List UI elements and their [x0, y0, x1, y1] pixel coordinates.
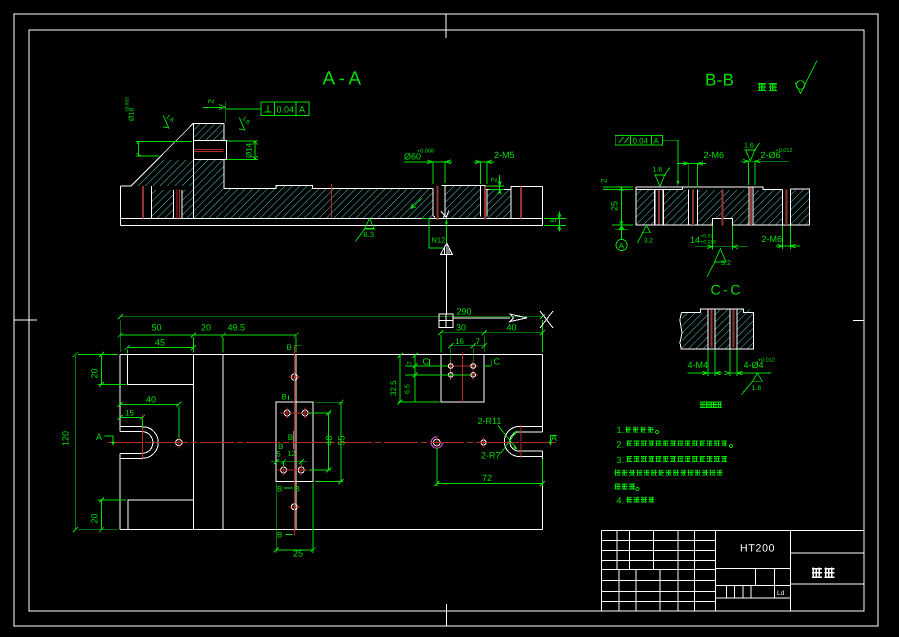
- svg-text:B: B: [277, 485, 282, 494]
- C-C hatch: [682, 313, 708, 349]
- roughness 1.6 at boss hole: [234, 118, 249, 133]
- svg-text:32.5: 32.5: [389, 380, 398, 396]
- surface check at hole exit: [441, 211, 449, 218]
- tapped hole magenta: [433, 439, 440, 446]
- svg-text:C: C: [494, 357, 501, 367]
- centering mark bottom: [446, 604, 448, 626]
- svg-text:A: A: [299, 105, 305, 115]
- right slot vertical red: [520, 425, 522, 458]
- hole slot-left: [176, 439, 182, 445]
- dim 2 lip: [490, 177, 499, 182]
- svg-text:2.: 2.: [617, 439, 625, 449]
- svg-text:120: 120: [61, 431, 71, 446]
- B-B hole2 red: [692, 189, 694, 225]
- hole on B-line bottom: [291, 504, 297, 510]
- svg-text:6.5: 6.5: [405, 384, 412, 394]
- right U-slot outer: [504, 426, 542, 456]
- left table verticals upper: [617, 530, 695, 569]
- C-C hole2 red: [732, 309, 734, 347]
- svg-text:B: B: [277, 531, 282, 540]
- M5 hole red: [484, 186, 486, 219]
- A-A hatch under-slant: [132, 160, 193, 186]
- svg-text:B: B: [278, 442, 283, 451]
- B-B hole1 red: [658, 190, 660, 225]
- datum A symbol: [619, 225, 625, 230]
- B-B hatch: [636, 190, 654, 225]
- svg-text:2-M6: 2-M6: [762, 234, 783, 244]
- bottom-left pocket: [128, 500, 193, 530]
- ucs X arrowhead: [510, 314, 527, 321]
- svg-text:20: 20: [90, 513, 100, 523]
- dim 2 at boss right: [207, 99, 216, 104]
- sub-rect2 red centerline: [462, 353, 464, 402]
- top edge right of boss with step: [224, 186, 433, 189]
- middle cells: [716, 569, 791, 598]
- dim 290: [120, 317, 542, 353]
- B-B hole4 walls: [782, 189, 790, 225]
- C-C hole1 walls: [708, 309, 715, 349]
- plan right edge segments: [541, 355, 543, 530]
- A-A hatch main band: [224, 189, 433, 218]
- svg-text:6.3: 6.3: [364, 230, 374, 239]
- B-B bar outline: [636, 187, 810, 225]
- dim 2 left: [600, 178, 609, 183]
- roughness 3.2 no2: [707, 249, 726, 277]
- A-A hatch boss top: [194, 124, 224, 140]
- centering mark right: [853, 319, 864, 321]
- right slot red: [520, 186, 522, 218]
- svg-text:15: 15: [125, 408, 134, 417]
- svg-text:B: B: [288, 433, 293, 442]
- C-C hole1 red: [710, 309, 712, 347]
- svg-text:2-R7: 2-R7: [481, 451, 501, 461]
- A-A body outline: [121, 123, 543, 225]
- short bar near centerline: [293, 431, 295, 449]
- svg-text:14: 14: [690, 235, 700, 245]
- small cells row: [726, 586, 774, 598]
- roughness 3.2 no1: [638, 225, 651, 243]
- small hole red pair: [177, 189, 180, 218]
- dim 20 bottom-left: [98, 500, 126, 530]
- left block hole red: [142, 186, 144, 218]
- left table verticals lower: [619, 570, 695, 611]
- dim 7 / 6.5 left of sub-rect2: [405, 356, 471, 403]
- svg-text:B-B: B-B: [705, 71, 734, 90]
- svg-text:+0.016: +0.016: [701, 240, 717, 246]
- top-left pocket: [127, 355, 193, 384]
- middle column edges: [716, 530, 791, 611]
- left slot vertical red: [142, 415, 144, 459]
- dim 25: [276, 483, 313, 553]
- plan left edge segments: [119, 355, 121, 530]
- section line B-B vertical: [293, 346, 295, 536]
- svg-text:2-R11: 2-R11: [478, 416, 502, 426]
- svg-text:2: 2: [207, 99, 216, 104]
- B-B top recess line: [636, 187, 683, 190]
- left U-slot outer: [120, 427, 158, 459]
- left slot mouth edges: [119, 427, 121, 459]
- A-A hatch left recess band: [152, 190, 174, 218]
- horizontal centerline: [108, 442, 556, 444]
- dim 45: [127, 348, 193, 354]
- A-A hatch boss column lower: [193, 160, 223, 218]
- svg-text:C: C: [423, 357, 430, 367]
- C-C hole2 walls: [730, 309, 737, 349]
- dim phi18 rotated text: [125, 97, 136, 121]
- svg-text:25: 25: [293, 549, 303, 559]
- dim 5 flange: [544, 212, 566, 232]
- svg-text:290: 290: [457, 307, 472, 317]
- dim phi14: [227, 141, 258, 160]
- dim 50 20 49.5 row: [120, 335, 296, 352]
- svg-text:4-M4: 4-M4: [688, 360, 709, 370]
- svg-text:0.04: 0.04: [277, 105, 295, 115]
- svg-text:50: 50: [152, 323, 162, 333]
- svg-text:3.2: 3.2: [644, 238, 653, 245]
- svg-text:20: 20: [90, 368, 100, 378]
- dim phi18 lines: [136, 141, 192, 156]
- raised lip top: [442, 186, 488, 190]
- svg-text:C-C: C-C: [711, 282, 741, 298]
- dim 40 sub-plate: [309, 413, 331, 470]
- svg-text:7: 7: [476, 337, 481, 346]
- B-B hole3 red: [750, 187, 752, 225]
- small hole walls x174/182: [174, 190, 183, 218]
- phi6 hole walls: [433, 186, 445, 218]
- M5 hole walls: [481, 186, 488, 217]
- part name: [812, 567, 822, 577]
- dim 72: [437, 448, 543, 486]
- right block wall: [510, 186, 512, 218]
- right U-slot inner: [510, 432, 543, 451]
- perpendicularity frame 0.04 A: [261, 102, 309, 116]
- roughness 6.3 bottom: [356, 218, 376, 241]
- roughness 1.6: [742, 373, 763, 394]
- svg-text:20: 20: [201, 323, 211, 333]
- svg-text:+0.012: +0.012: [758, 358, 775, 364]
- right column rows: [791, 553, 865, 584]
- top edge to right block: [487, 186, 542, 189]
- ucs X axis line: [453, 317, 510, 319]
- svg-text:7: 7: [407, 361, 414, 365]
- note line 5: [615, 483, 639, 490]
- sub-rect2 hole row reds: [446, 366, 478, 375]
- svg-text:1.: 1.: [617, 425, 625, 435]
- svg-text:+0.012: +0.012: [776, 148, 793, 154]
- B-B hole1 walls: [655, 190, 663, 225]
- svg-text:1.6: 1.6: [744, 143, 754, 150]
- roughness 1.6 on slant: [158, 116, 173, 131]
- dim 55 sub-plate: [315, 402, 343, 481]
- leader arrow near phi60: [411, 199, 422, 209]
- C-C block outline: [680, 309, 754, 349]
- left block wall: [150, 186, 152, 218]
- ucs origin box: [439, 314, 453, 328]
- sub-plate hole r2c2: [298, 467, 304, 473]
- A-A hatch right of M5: [487, 190, 511, 218]
- svg-text:2: 2: [490, 177, 499, 182]
- remainder roughness symbol 其余: [758, 61, 817, 94]
- dim 25 left: [603, 187, 633, 225]
- boss hole thread red lines: [194, 150, 224, 152]
- dim 32.5: [398, 356, 440, 403]
- svg-text:1.6: 1.6: [752, 385, 762, 392]
- sub-plate rectangle: [276, 402, 313, 481]
- svg-text:5: 5: [549, 218, 558, 223]
- svg-text:40: 40: [324, 435, 334, 445]
- vertical line x296.1: [295, 355, 297, 530]
- svg-text:49.5: 49.5: [228, 323, 246, 333]
- svg-text:A: A: [96, 432, 102, 442]
- svg-text:4.: 4.: [617, 495, 625, 505]
- sub-plate hole r2c1: [281, 467, 287, 473]
- dim 30 / 40 row: [441, 333, 543, 353]
- svg-text:Ø14: Ø14: [245, 142, 254, 158]
- svg-text:2: 2: [600, 178, 609, 183]
- note line 4: [615, 470, 723, 476]
- boss hole band lines: [193, 141, 224, 160]
- svg-text:N12: N12: [432, 236, 446, 245]
- sub-plate hole r1c1: [284, 410, 290, 416]
- svg-text:55: 55: [337, 435, 347, 445]
- small hole right: [481, 440, 486, 445]
- svg-text:40: 40: [146, 394, 156, 404]
- red centerline x331: [330, 184, 332, 218]
- svg-text:2-M6: 2-M6: [704, 150, 725, 160]
- svg-text:HT200: HT200: [740, 543, 775, 555]
- plan outline top/bottom: [120, 355, 542, 530]
- sub-plate hole r1c2: [302, 410, 308, 416]
- centering mark top: [445, 14, 447, 38]
- svg-text:A: A: [619, 241, 625, 250]
- B-B hole3 walls: [749, 187, 753, 225]
- phi6 hole red: [436, 186, 438, 220]
- svg-text:2-M5: 2-M5: [494, 150, 515, 160]
- svg-text:45: 45: [155, 338, 165, 348]
- boss left edge: [192, 123, 194, 218]
- svg-text:A-A: A-A: [323, 69, 362, 90]
- svg-text:25: 25: [610, 201, 620, 211]
- dim 120: [75, 355, 118, 530]
- dim 15 slot: [120, 417, 142, 428]
- B-B hole2 walls: [689, 189, 698, 225]
- svg-text:B: B: [282, 392, 287, 401]
- sub-rect2 holes: [448, 364, 453, 369]
- vertical line x193.4: [192, 355, 194, 530]
- svg-text:30: 30: [456, 323, 466, 333]
- svg-text:72: 72: [482, 473, 492, 483]
- centering mark left: [14, 319, 37, 321]
- left table horizontals: [602, 540, 716, 601]
- ucs vertical axis line: [445, 255, 447, 315]
- svg-text:B: B: [287, 343, 292, 352]
- svg-text:3.2: 3.2: [721, 260, 731, 267]
- left U-slot inner: [120, 432, 153, 454]
- sub-rect2 hole column reds: [451, 361, 474, 381]
- vertical line x223.1: [222, 355, 224, 530]
- dim 16 / 7 row: [451, 346, 485, 362]
- right slot mouth edges: [541, 426, 543, 456]
- title block outline: [602, 530, 865, 611]
- svg-text:16: 16: [455, 337, 464, 346]
- HT200 cell: [716, 568, 791, 570]
- top-right sub-rect: [441, 355, 484, 403]
- svg-text:+0.003: +0.003: [125, 97, 131, 112]
- svg-text:0.04: 0.04: [633, 136, 649, 145]
- dim 20 top-left: [98, 355, 126, 385]
- parallelism frame: [615, 135, 662, 145]
- svg-text:A: A: [654, 136, 660, 145]
- A-A hatch under lip: [445, 186, 481, 218]
- svg-text:B: B: [295, 485, 300, 494]
- svg-text:3.: 3.: [617, 455, 625, 465]
- dim 40 slot: [120, 404, 179, 438]
- hole on B-line top: [291, 374, 297, 380]
- B-B keyway red: [721, 190, 723, 226]
- svg-text:40: 40: [507, 323, 517, 333]
- B-B hole4 red: [785, 189, 787, 225]
- ucs X letter: [540, 311, 553, 328]
- svg-text:12: 12: [288, 449, 296, 458]
- svg-text:+0.008: +0.008: [417, 149, 434, 155]
- svg-text:Ld: Ld: [777, 590, 785, 597]
- boss right edge with hole step: [224, 123, 226, 188]
- ucs Y arrow triangle: [441, 243, 453, 255]
- svg-text:1.6: 1.6: [653, 167, 663, 174]
- heading technical requirements: [700, 401, 706, 407]
